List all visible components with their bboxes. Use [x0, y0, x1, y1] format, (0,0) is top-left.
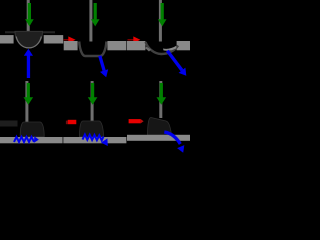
panel 3 row 1: [127, 0, 190, 76]
slip arrow V3 (blue, down-right): [167, 51, 186, 76]
rod P5: [91, 81, 94, 121]
table row1 panel2 right segment: [107, 41, 126, 50]
slip arrow V4 (blue zigzag, right): [14, 137, 34, 142]
force arrow F1 (green, down): [25, 3, 34, 26]
slip arrow V6 (blue, curved down-right): [164, 132, 184, 153]
paddle B6 tip: [141, 119, 144, 123]
force arrow F5 (green, down): [88, 83, 98, 105]
rod P4: [25, 81, 28, 122]
force arrow F3 (green, down): [158, 3, 167, 26]
force arrow F2 (green, down): [91, 3, 100, 26]
panel 1 row 2: [0, 81, 63, 143]
table row1 panel3 left segment: [127, 41, 145, 50]
rod P2: [89, 0, 92, 42]
table row1 panel2 left segment: [64, 41, 78, 50]
slip arrow V2 (blue, down-right): [100, 56, 108, 78]
table row2 panel3: [127, 135, 190, 141]
table row1 panel1 right segment: [44, 35, 64, 43]
panel 2 row 1: [64, 0, 127, 77]
rod P6: [159, 81, 162, 118]
force arrow F4 (green, down): [24, 83, 34, 105]
cup C4 (inverted on table): [20, 122, 44, 137]
table row1 panel3 right segment: [177, 41, 190, 50]
cup C1 bottom rim: [16, 37, 41, 48]
cup C3 interior sliver left: [146, 47, 152, 52]
panel 3 row 2: [127, 81, 190, 153]
rod P1: [27, 0, 30, 32]
table row1 panel1 left segment: [0, 35, 14, 43]
panel 2 row 2: [63, 81, 126, 146]
paddle B5 fringe: [66, 121, 68, 125]
reaction arrow N1 (blue, up): [24, 49, 33, 78]
cup C5 (inverted on table): [80, 121, 104, 137]
push arrow R2 (red, right): [64, 36, 76, 43]
table row2 panel1: [0, 137, 63, 143]
cup C2 (open, in hole): [79, 42, 106, 57]
rod P3: [159, 0, 162, 42]
slip arrow V5 (blue zigzag, down-right): [83, 135, 104, 141]
panel 1 row 1: [0, 0, 63, 78]
paddle B4 (dark): [0, 121, 18, 127]
cup C3 interior sliver: [163, 46, 176, 51]
table lip (dark wings): [5, 31, 55, 33]
paddle B6 (red): [129, 119, 141, 123]
paddle B5 (red): [68, 120, 77, 124]
push arrow R3 (red, right): [128, 36, 141, 43]
force arrow F6 (green, down): [157, 83, 167, 105]
table row2 panel2: [63, 137, 126, 143]
cup C1 (inverted, pressed in hole): [15, 31, 43, 47]
cup C3 (tilted in hole): [146, 42, 179, 54]
cup C6 (tilted on table): [148, 117, 172, 135]
